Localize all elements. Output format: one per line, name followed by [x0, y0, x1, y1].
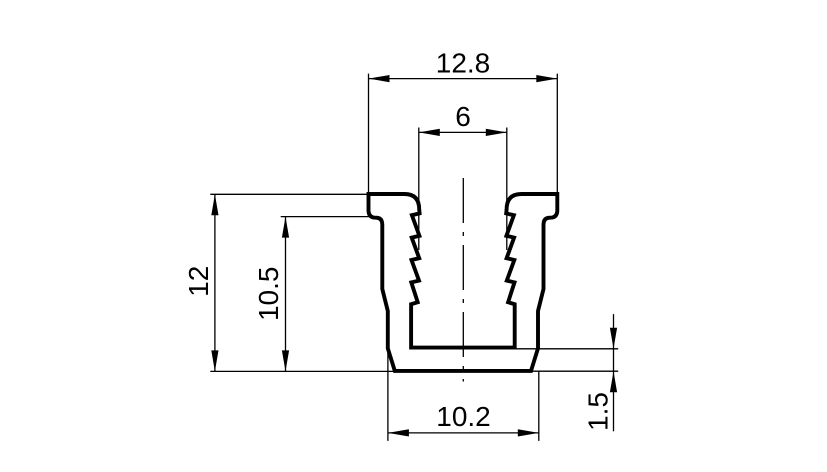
vertical centerline (dash-dot) [462, 178, 464, 382]
svg-text:10.2: 10.2 [436, 401, 491, 432]
dimension 12.8: right arrowhead [536, 75, 557, 82]
dimension 12: bottom arrowhead [211, 350, 218, 371]
dimension 10.5: extension line top [281, 216, 374, 218]
dimension 10.2: left arrowhead [388, 429, 409, 436]
dimension 1.5: bottom arrowhead (outside, pointing up) [610, 371, 617, 392]
dimension 1.5: dimension line [613, 314, 615, 431]
dimension 12.8: left arrowhead [369, 75, 390, 82]
dimension 6: dimension line [419, 131, 507, 133]
dimension 1.5: extension line top (inner floor level) [516, 348, 618, 350]
dimension 10.2: extension line right [538, 371, 540, 441]
dimension 10.2: right arrowhead [518, 429, 539, 436]
dimension 10.2: dimension line [388, 432, 539, 434]
dimension 10.5: bottom arrowhead [282, 350, 289, 371]
dimension 1.5: top arrowhead (outside, pointing down) [610, 328, 617, 349]
dimension 12: dimension line [214, 194, 216, 371]
svg-text:10.5: 10.5 [253, 267, 284, 322]
dimension 6: left arrowhead [419, 129, 440, 136]
dimension 12: extension line top [210, 193, 367, 195]
svg-text:12: 12 [183, 266, 214, 297]
svg-text:1.5: 1.5 [583, 392, 614, 431]
dimension 12.8: extension line left [368, 74, 370, 193]
dimension 6: extension line right [506, 128, 508, 251]
dimension 12: top arrowhead [211, 194, 218, 215]
dimension 12.8: extension line right [556, 74, 558, 193]
dimension 6: extension line left [418, 128, 420, 251]
dimension 12.8: dimension line [369, 78, 558, 80]
profile outline (serrated U-channel cross-section) [369, 194, 558, 371]
dimension 10.5: dimension line [285, 217, 287, 372]
svg-text:6: 6 [455, 101, 471, 132]
dimension 6: right arrowhead [486, 129, 507, 136]
dimension 10.2: extension line left [387, 350, 389, 441]
dimension 10.5: top arrowhead [282, 217, 289, 238]
svg-text:12.8: 12.8 [436, 48, 491, 79]
shared bottom extension line (12 and 10.5) [210, 370, 396, 372]
dimension 1.5: extension line bottom (outer bottom level) [531, 370, 618, 372]
